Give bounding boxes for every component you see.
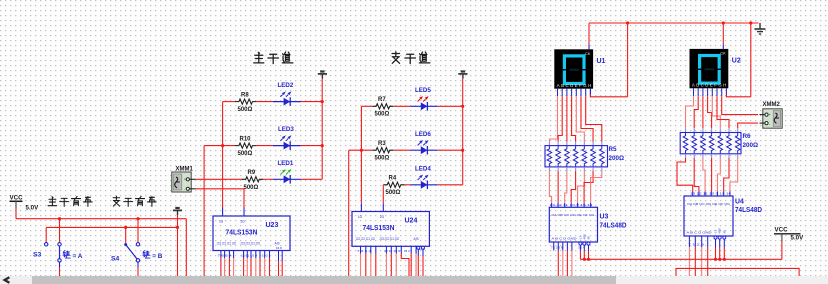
wire R4 down to U24	[382, 185, 384, 204]
svg-text:U24: U24	[405, 218, 418, 225]
resistor R4 500	[383, 182, 404, 187]
label 键=A	[63, 251, 70, 259]
svg-text:14 2: 14 2	[262, 253, 268, 257]
wire U1 pin G jog to R5 r7	[586, 96, 602, 141]
svg-text:16 8: 16 8	[276, 246, 282, 250]
svg-text:= A: = A	[73, 253, 83, 260]
svg-text:1C3 1C2 1C1 1C0: 1C3 1C2 1C1 1C0	[356, 237, 376, 241]
ground	[462, 74, 464, 78]
resistor R7 500	[372, 104, 393, 109]
U3 bottom pins	[553, 242, 555, 251]
IC U4 74LS48D	[684, 196, 733, 236]
wire net VCC horizontal upper	[16, 218, 186, 220]
label 支干有车	[113, 196, 119, 206]
svg-text:500Ω: 500Ω	[375, 112, 390, 118]
wire R3 down long	[348, 150, 350, 276]
wires U2 segment fan to R6	[686, 96, 694, 128]
svg-text:3 5 4: 3 5 4	[578, 246, 585, 250]
wire XMM1 lower to U23 pin	[196, 189, 244, 208]
LED LED5 red	[410, 105, 438, 107]
resistor R3 500	[372, 148, 393, 153]
svg-text:500Ω: 500Ω	[386, 190, 401, 196]
junction	[626, 21, 629, 24]
wire R9 to LED1	[263, 178, 273, 180]
svg-text:R10: R10	[240, 136, 252, 142]
svg-text:OA OB OC OD OE OF OG: OA OB OC OD OE OF OG	[552, 213, 596, 217]
IC U24 74LS153N	[352, 212, 429, 247]
wire LED1 to rail corner	[301, 178, 323, 180]
svg-text:2C3 2C2 2C1 2C0: 2C3 2C2 2C1 2C0	[241, 242, 261, 246]
display U1 seven-segment	[554, 49, 593, 88]
label 主干有车	[48, 197, 57, 206]
wire rail to U1 CK	[588, 23, 590, 45]
wire R10 to LED3	[256, 145, 273, 147]
wire main rail vertical	[321, 79, 323, 180]
junction R8 net crosses R10 row	[221, 144, 224, 147]
svg-text:5.0V: 5.0V	[791, 235, 805, 242]
svg-text:ABCDEFGH: ABCDEFGH	[557, 83, 592, 88]
wire XMM1 to R9	[196, 178, 243, 180]
junction VCC net	[723, 258, 726, 261]
junction	[722, 21, 725, 24]
wire U2 pin G to XMM2 +	[722, 96, 758, 114]
svg-text:1G: 1G	[219, 220, 224, 224]
svg-text:~RBI: ~RBI	[718, 228, 722, 235]
junction VCC net	[587, 258, 590, 261]
svg-text:2C3 2C2 2C1 2C0: 2C3 2C2 2C1 2C0	[380, 237, 400, 241]
junction VCC net	[714, 258, 717, 261]
wire ground stem to net	[177, 215, 179, 227]
svg-text:U2: U2	[732, 57, 741, 64]
wires R6 to U4 fan	[685, 154, 687, 158]
svg-text:74LS153N: 74LS153N	[226, 230, 258, 237]
wire S4 right drop	[137, 219, 139, 243]
svg-text:14 2: 14 2	[404, 249, 410, 253]
svg-text:LED2: LED2	[278, 82, 294, 89]
svg-text:5.0V: 5.0V	[26, 204, 40, 211]
wire LED5 to rail	[438, 105, 463, 107]
resistor R9 500	[242, 177, 263, 182]
junction rail LED5	[461, 105, 464, 108]
svg-text:U4: U4	[735, 199, 744, 206]
U3 inverted pins to VCC net	[579, 242, 582, 245]
junction	[749, 21, 752, 24]
switch S3 key=A	[59, 246, 61, 259]
LED LED2 blue	[273, 101, 301, 103]
junction rail LED6	[461, 149, 464, 152]
switch S4 key=B	[124, 243, 127, 246]
svg-text:= B: = B	[152, 253, 163, 260]
LED LED1 green	[273, 178, 301, 180]
U4 bottom pins	[688, 236, 690, 247]
ground	[321, 74, 323, 78]
svg-text:1G: 1G	[358, 215, 363, 219]
scrollbar	[0, 276, 828, 284]
wire U1 pin H loop to rail	[589, 89, 591, 95]
scrollbar left arrow	[5, 277, 10, 283]
wire XMM2 - to R6 r7	[738, 123, 758, 128]
LED LED4 blue	[410, 184, 438, 186]
svg-text:74LS153N: 74LS153N	[363, 225, 395, 232]
U4 inverted pins to VCC net	[714, 236, 717, 239]
svg-text:7 6 5 4: 7 6 5 4	[357, 249, 371, 253]
svg-text:500Ω: 500Ω	[375, 155, 390, 161]
svg-text:OA OB OC OD OE OF OG: OA OB OC OD OE OF OG	[687, 202, 731, 206]
wire R10 down long to edge	[203, 146, 205, 276]
svg-text:16 8: 16 8	[419, 247, 425, 251]
svg-text:2G: 2G	[380, 215, 385, 219]
resistor R10 500	[235, 143, 256, 148]
svg-text:74LS48D: 74LS48D	[735, 207, 762, 214]
U24 pin jog wire	[400, 246, 402, 253]
resistor network R5 200	[545, 146, 608, 167]
svg-text:7 1 2 6 8: 7 1 2 6 8	[551, 246, 563, 250]
wire VCC right down	[781, 242, 783, 260]
wire VCC down	[15, 209, 17, 219]
svg-text:A B: A B	[275, 242, 281, 246]
wire lower horizontal	[46, 226, 177, 228]
svg-text:U23: U23	[266, 222, 279, 229]
svg-text:500Ω: 500Ω	[238, 151, 253, 157]
junction VCC net	[718, 258, 721, 261]
wire R8 down to U23	[222, 102, 224, 208]
wire R4 to LED4	[405, 184, 411, 186]
wire S3 left drop	[45, 227, 47, 242]
svg-text:A B: A B	[414, 237, 420, 241]
wire LED2 to rail	[301, 101, 323, 103]
junction R7 net crosses R3 row	[360, 149, 363, 152]
LED LED3 blue	[273, 145, 301, 147]
U24 strobe pins with bubbles	[417, 246, 420, 249]
junction	[124, 226, 127, 229]
wire LED3 to rail	[301, 145, 323, 147]
IC U3 74LS48D	[549, 207, 597, 242]
wire VCC net horizontal	[580, 258, 782, 260]
svg-text:U3: U3	[600, 214, 609, 221]
svg-text:A B C D GND: A B C D GND	[687, 231, 713, 235]
U24 bottom pins	[360, 246, 362, 253]
wire R7 down to U24	[360, 106, 362, 203]
svg-text:LED3: LED3	[278, 126, 294, 133]
resistor R8 500	[235, 99, 256, 104]
ground	[177, 211, 179, 215]
svg-text:CK: CK	[585, 52, 591, 56]
wire right corner down to edge	[185, 219, 187, 276]
wire rail to U2 CK	[722, 23, 724, 44]
wires R5 to U3 fan	[548, 167, 550, 171]
svg-text:R8: R8	[241, 92, 249, 98]
title 主干道	[254, 52, 264, 63]
junction rail row A	[321, 100, 324, 103]
wire branch rail vertical	[462, 79, 464, 185]
svg-text:R5: R5	[609, 146, 618, 153]
svg-text:LED1: LED1	[278, 160, 294, 167]
svg-text:LED6: LED6	[415, 131, 431, 138]
label 键=B	[143, 251, 150, 259]
svg-text:R6: R6	[743, 133, 752, 140]
svg-text:~BI: ~BI	[587, 236, 591, 240]
svg-text:74LS48D: 74LS48D	[600, 222, 627, 229]
wire bottom U loop	[676, 268, 799, 276]
svg-text:12 11 10 9: 12 11 10 9	[384, 249, 400, 253]
junction VCC net	[583, 258, 586, 261]
svg-text:S4: S4	[111, 256, 120, 263]
wire S3 right drop	[59, 219, 61, 243]
junction rail row B	[321, 144, 324, 147]
U23 bottom pins	[220, 251, 222, 259]
svg-text:R9: R9	[248, 170, 256, 176]
svg-text:R4: R4	[389, 176, 397, 182]
svg-text:XMM2: XMM2	[763, 102, 781, 108]
wire down to edge	[177, 227, 179, 276]
wire R8 to LED2	[256, 101, 273, 103]
svg-text:S3: S3	[33, 252, 42, 259]
svg-text:200Ω: 200Ω	[743, 142, 759, 149]
svg-text:VCC: VCC	[775, 227, 789, 234]
svg-text:+: +	[184, 178, 186, 182]
resistor network R6 200	[680, 133, 741, 154]
display U2 seven-segment	[690, 49, 729, 88]
wire LED4 to rail corner	[438, 184, 463, 186]
svg-text:U1: U1	[597, 58, 606, 65]
svg-text:7 1 2 6: 7 1 2 6	[688, 243, 705, 247]
svg-text:ABCDEFGH: ABCDEFGH	[692, 83, 727, 88]
title 支干道	[392, 52, 400, 64]
LED LED6 blue	[410, 149, 438, 151]
svg-text:500Ω: 500Ω	[238, 107, 253, 113]
junction	[136, 217, 139, 220]
svg-text:LED4: LED4	[415, 165, 431, 172]
svg-text:LED5: LED5	[415, 87, 431, 94]
ground	[759, 23, 761, 29]
wire rail drop U2 loop	[750, 23, 752, 97]
wires U1 segment fan to R5	[549, 96, 557, 141]
wire R3 to LED6	[394, 149, 410, 151]
junction	[58, 217, 61, 220]
wire U2 pin H loop to rail	[726, 94, 750, 97]
svg-text:200Ω: 200Ω	[609, 155, 625, 162]
svg-text:7 6 5 4: 7 6 5 4	[218, 253, 232, 257]
IC U23 74LS153N	[213, 216, 290, 251]
wire LED6 to rail	[438, 149, 463, 151]
svg-text:R7: R7	[378, 97, 386, 103]
svg-text:~BI: ~BI	[722, 230, 726, 234]
svg-text:500Ω: 500Ω	[244, 185, 259, 191]
wire R8 left	[223, 101, 235, 103]
wire R7 left	[361, 105, 372, 107]
wire S4 left drop	[125, 227, 127, 243]
svg-text:VCC: VCC	[10, 195, 24, 202]
svg-text:+: +	[769, 113, 771, 117]
wire R3 left	[349, 149, 372, 151]
svg-text:R3: R3	[378, 141, 386, 147]
svg-text:13 12 11 10 9 15 14: 13 12 11 10 9 15 14	[690, 192, 732, 196]
svg-text:13 12 11 10 9 15 14: 13 12 11 10 9 15 14	[550, 203, 594, 207]
wire R10 left	[204, 145, 235, 147]
wire top rail	[589, 22, 759, 24]
svg-text:1C3 1C2 1C1 1C0: 1C3 1C2 1C1 1C0	[217, 242, 237, 246]
wire rail drop U1 loop	[627, 23, 629, 97]
wire R7 to LED5	[394, 105, 410, 107]
junction ground	[176, 226, 179, 229]
svg-text:A B C D GND: A B C D GND	[552, 237, 578, 241]
svg-text:CK: CK	[720, 52, 726, 56]
svg-text:12 11 10 9: 12 11 10 9	[241, 253, 257, 257]
svg-text:2G: 2G	[241, 220, 246, 224]
